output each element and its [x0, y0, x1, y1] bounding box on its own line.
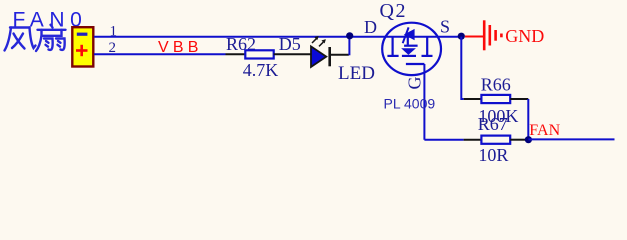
svg-text:LED: LED: [338, 63, 375, 84]
svg-text:G: G: [405, 77, 425, 90]
transistor Q2 body (P-MOSFET): [382, 23, 441, 75]
LED light arrow 1: [312, 36, 318, 43]
svg-text:Q2: Q2: [380, 0, 407, 22]
resistor R67 pin 2: [510, 139, 525, 141]
svg-text:R66: R66: [481, 75, 511, 95]
LED D5 cathode bar: [328, 47, 331, 66]
svg-text:FAN: FAN: [529, 122, 560, 139]
wire LED cathode to pin1 net: [348, 37, 350, 56]
connector FAN0 body: [72, 27, 93, 66]
junction node A: [346, 32, 353, 39]
wire FAN net: [528, 138, 614, 140]
svg-text:10R: 10R: [478, 145, 508, 165]
svg-text:GND: GND: [505, 26, 544, 46]
wire source node down to R66: [461, 37, 463, 99]
svg-text:S: S: [440, 16, 450, 36]
wire gate row to R67: [424, 139, 463, 141]
wire gate down to R67 row: [423, 64, 425, 140]
resistor R62 pin 1: [226, 53, 246, 55]
svg-text:PL 4009: PL 4009: [384, 96, 436, 112]
svg-text:VBB: VBB: [158, 39, 203, 56]
resistor R62 pin 2: [274, 53, 311, 55]
svg-text:4.7K: 4.7K: [243, 60, 278, 80]
resistor R67 pin 1: [464, 139, 482, 141]
resistor R62 body: [245, 50, 273, 58]
ground symbol: [484, 20, 501, 50]
LED D5 triangle: [311, 46, 326, 67]
resistor R66 pin 1: [464, 98, 482, 100]
LED D5 cathode pin: [331, 54, 349, 56]
text 风扇 (fan): [5, 25, 66, 51]
wire to ground: [465, 36, 483, 38]
svg-text:D: D: [364, 17, 377, 37]
wire R66 down to FAN node: [527, 99, 529, 140]
junction node C (FAN node): [525, 136, 532, 143]
resistor R66 pin 2: [510, 98, 528, 100]
resistor R67 body: [481, 136, 510, 144]
wire pin1 net (connector to drain node): [94, 36, 461, 38]
LED light arrow 2: [319, 40, 326, 47]
transistor Q2 body diode: [401, 48, 416, 55]
junction node B (source node): [458, 33, 465, 40]
connector plus terminal: [76, 45, 88, 56]
resistor R66 body: [481, 95, 510, 103]
svg-text:D5: D5: [279, 34, 301, 54]
connector minus terminal: [77, 33, 88, 36]
svg-text:R67: R67: [478, 114, 508, 134]
transistor Q2 substrate arrow: [404, 29, 415, 40]
wire pin2 net VBB: [94, 53, 226, 55]
